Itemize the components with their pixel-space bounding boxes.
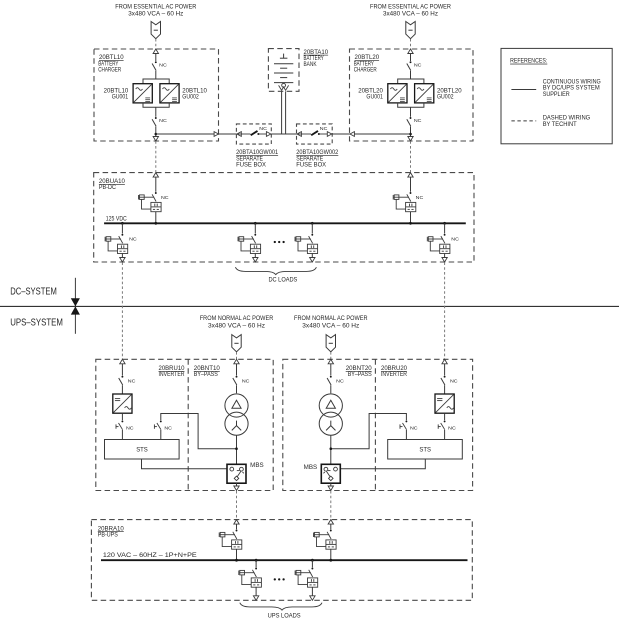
wire into breaker: [155, 177, 157, 192]
battery terminal connectors: [279, 83, 289, 90]
label 20BTL20 GU002: [437, 87, 462, 100]
label 20BNT10 BY-PASS: [194, 365, 220, 378]
svg-text:GU001: GU001: [112, 93, 129, 100]
breaker NC (PB-UPS outgoing): [295, 568, 318, 588]
switch NC (STS1 bypass input): [154, 420, 161, 429]
label 20BTL10 GU002: [182, 87, 207, 100]
flag-in arrow at UPS box top (inverter GU: 20BRU20): [442, 359, 447, 364]
switch NC (STS2 bypass input): [400, 420, 407, 429]
breaker NC (outgoing): [238, 234, 261, 254]
svg-text:120 VAC – 60HZ – 1P+N+PE: 120 VAC – 60HZ – 1P+N+PE: [103, 552, 197, 559]
flag-out arrow at PB-DC bottom: [310, 258, 315, 263]
wire: charger 1 to fuse box 1: [156, 133, 237, 135]
UPS unit 2 dashed enclosure (20BNT20/20BRU20): [283, 359, 473, 490]
wire from bypass tap to STS1 second input: [161, 414, 237, 449]
svg-text:FROM NORMAL AC POWER: FROM NORMAL AC POWER: [200, 316, 274, 322]
svg-text:MBS: MBS: [250, 463, 264, 469]
wire transformer to junction: [236, 435, 238, 464]
brace DC LOADS: [235, 267, 316, 274]
flag-out arrow at PB-DC bottom: [442, 258, 447, 263]
legend dashed wire sample: [511, 120, 536, 122]
node: FROM ESSENTIAL AC POWER source 2: [370, 5, 452, 18]
flag-out arrow at PB-DC bottom: [120, 258, 125, 263]
svg-text:3x480 VCA – 60 Hz: 3x480 VCA – 60 Hz: [128, 11, 183, 17]
svg-text:FUSE BOX: FUSE BOX: [236, 161, 266, 168]
junction dot on bus: [443, 222, 446, 225]
rectifier module GU001: [388, 84, 407, 103]
svg-text:NC: NC: [242, 378, 250, 384]
svg-text:NC: NC: [336, 378, 344, 384]
flag-in arrow at fuse box 2 left edge: [297, 132, 301, 137]
switch NC (inverter input GU: 20BRU20): [441, 376, 446, 385]
switch NC (bypass input 20BNT20): [327, 376, 332, 385]
wire bracket to NC2: [155, 107, 157, 117]
svg-text:FUSE BOX: FUSE BOX: [296, 161, 326, 168]
wire breaker to bus: [410, 212, 412, 224]
wire inverter to NC2: [444, 413, 446, 420]
wire breaker to arrow: [311, 587, 313, 600]
svg-text:NC: NC: [161, 195, 169, 201]
label 20BRA10 PB-UPS: [98, 525, 124, 538]
bus 125 VDC: [104, 222, 466, 224]
system break bowtie marker: [71, 278, 80, 334]
junction dot (bypass/STS tap): [235, 447, 238, 450]
svg-text:NC: NC: [320, 126, 328, 132]
wire breaker to arrow: [254, 254, 256, 263]
junction dot on bus: [311, 559, 314, 562]
svg-text:NC: NC: [126, 426, 134, 432]
parallel bracket bottom: [398, 103, 424, 107]
rectifier module GU002: [160, 84, 179, 103]
wire bus to breaker: [311, 560, 313, 567]
wire NC to STS1: [160, 430, 162, 440]
svg-text:BANK: BANK: [304, 61, 318, 68]
svg-text:CHARGER: CHARGER: [354, 66, 377, 73]
label 20BUA10 PB-DC: [99, 178, 125, 191]
svg-text:BY–PASS: BY–PASS: [348, 371, 372, 378]
svg-text:3x480 VCA – 60 Hz: 3x480 VCA – 60 Hz: [302, 323, 359, 329]
wire: fuse box 1 to fuse box 2: [271, 133, 296, 135]
label 20BTA10 BATTERY BANK: [304, 49, 329, 68]
svg-text:FROM ESSENTIAL AC POWER: FROM ESSENTIAL AC POWER: [370, 5, 452, 11]
switch NC (output): [407, 117, 412, 126]
wire: source drop (dashed): [330, 352, 332, 359]
wire into breaker: [410, 177, 412, 192]
svg-text:NC: NC: [128, 378, 136, 384]
label 20BRU10 INVERTER: [159, 365, 185, 378]
svg-text:NC: NC: [448, 426, 456, 432]
manual bypass switch MBS 1: [227, 464, 246, 483]
wire MBS2 to bottom arrow: [330, 483, 332, 490]
flag-out arrow at charger1 right edge: [214, 132, 218, 137]
wire: PB-DC to inverter 1 (dashed): [121, 262, 123, 359]
svg-text:NC: NC: [410, 426, 418, 432]
flag-in arrow at PB-UPS top: [234, 520, 239, 525]
svg-text:NC: NC: [129, 237, 137, 243]
junction dot: [409, 133, 412, 136]
flag-out arrow at charger 20BTL20 bottom: [408, 137, 413, 142]
svg-text:BY–PASS: BY–PASS: [194, 371, 218, 378]
wire breaker to bus: [155, 212, 157, 224]
svg-text:UPS–SYSTEM: UPS–SYSTEM: [10, 318, 63, 329]
svg-text:STS: STS: [136, 446, 148, 453]
wire NC2 to STS: [121, 430, 123, 440]
wire: source 1 drop (dashed): [155, 39, 157, 49]
flag-out arrow at fuse box 1 right edge: [266, 132, 270, 137]
breaker NC (incoming): [139, 192, 162, 212]
flag-out arrow at UPS box 2 bottom: [328, 486, 333, 491]
flag-in arrow at fuse box 1 left edge: [237, 132, 241, 137]
wire NC to bracket: [410, 71, 412, 79]
breaker NC (outgoing): [105, 234, 128, 254]
switch NC (inverter output GU: 20BRU10): [116, 420, 123, 429]
wire to NC: [330, 364, 332, 376]
svg-text:SUPPLIER: SUPPLIER: [543, 91, 570, 98]
switch NC (input): [407, 61, 412, 70]
label DASHED WIRING BY TECHINT: [543, 115, 591, 128]
svg-text:125 VDC: 125 VDC: [106, 216, 127, 223]
svg-text:REFERENCES:: REFERENCES:: [510, 58, 547, 65]
svg-text:STS: STS: [419, 446, 431, 453]
junction dot on bus: [121, 222, 124, 225]
junction dot on bus: [235, 559, 238, 562]
breaker NC (outgoing): [295, 234, 318, 254]
wire bus to breaker: [255, 560, 257, 567]
wire to NC: [236, 364, 238, 376]
wire NC to inverter: [444, 385, 446, 394]
svg-text:PB-DC: PB-DC: [99, 184, 116, 191]
flag-in arrow at PB-DC top: [408, 173, 413, 178]
source flag 2: [406, 22, 415, 39]
flag-in arrow at UPS box top (bypass 20BNT20): [328, 359, 333, 364]
svg-text:FROM NORMAL AC POWER: FROM NORMAL AC POWER: [294, 316, 368, 322]
wire breaker to arrow: [311, 254, 313, 263]
label 20BTA10GW002 SEPARATE FUSE BOX: [296, 149, 338, 168]
junction dot on bus: [329, 559, 332, 562]
battery bank 20BTA10 dashed enclosure: [268, 49, 299, 92]
svg-text:INVERTER: INVERTER: [381, 371, 407, 378]
wire breaker to arrow: [255, 587, 257, 600]
brace UPS LOADS: [240, 603, 322, 610]
wire transformer to junction: [330, 435, 332, 464]
manual bypass switch MBS 2: [321, 464, 340, 483]
svg-text:NC: NC: [164, 426, 172, 432]
static transfer switch STS 2: [388, 440, 463, 460]
flag-in arrow at charger 20BTL20 top: [408, 49, 413, 54]
wire breaker to bus: [330, 549, 332, 560]
svg-text:DC–SYSTEM: DC–SYSTEM: [10, 287, 57, 298]
references legend box: [501, 48, 612, 143]
junction dot on bus: [409, 222, 412, 225]
divider line DC-SYSTEM / UPS-SYSTEM: [0, 305, 619, 307]
wire: UPS1 to PB-UPS (dashed): [236, 491, 238, 520]
wire MBS1 to bottom arrow: [236, 483, 238, 490]
wire inverter to NC2: [121, 413, 123, 420]
wire bus to breaker: [254, 223, 256, 233]
node: FROM ESSENTIAL AC POWER source 1: [115, 5, 197, 18]
switch NC (output): [152, 117, 157, 126]
battery symbol: [274, 54, 293, 83]
panel 20BUA10 PB-DC dashed enclosure: [94, 173, 474, 262]
wire NC to transformer: [236, 385, 238, 393]
wire into breaker: [236, 524, 238, 529]
svg-text:NC: NC: [450, 378, 458, 384]
svg-text:UPS LOADS: UPS LOADS: [268, 613, 301, 620]
label CONTINUOUS WIRING BY DC/UPS SYSTEM SUPPLIER: [543, 78, 601, 98]
svg-text:GU001: GU001: [366, 93, 383, 100]
wire bus to breaker: [121, 223, 123, 233]
wire: fuse box 2 to charger 2: [332, 133, 410, 135]
junction dot: [155, 133, 158, 136]
wire STS1 output to MBS1: [142, 459, 228, 469]
wire bracket to NC2: [410, 107, 412, 117]
flag-out arrow at UPS box 1 bottom: [234, 486, 239, 491]
node: FROM NORMAL AC POWER source at x=236.5: [200, 316, 274, 329]
svg-text:3x480 VCA – 60 Hz: 3x480 VCA – 60 Hz: [208, 323, 265, 329]
breaker NC (incoming): [393, 192, 416, 212]
wire: charger2 to PB-DC (dashed): [410, 141, 412, 172]
junction dot (bypass/STS tap): [330, 447, 333, 450]
svg-text:CHARGER: CHARGER: [98, 66, 121, 73]
label 20BTL20 GU001: [358, 87, 383, 100]
svg-text:NC: NC: [414, 118, 422, 124]
label 20BTA10GW001 SEPARATE FUSE BOX: [236, 149, 278, 168]
wire NC to transformer: [330, 385, 332, 393]
wire STS2 output to MBS2: [341, 459, 426, 469]
transformer 20BNT20: [319, 394, 342, 435]
legend solid wire sample: [511, 89, 536, 91]
wire: charger1 to PB-DC (dashed): [155, 141, 157, 172]
svg-text:GU002: GU002: [437, 93, 454, 100]
wire from bypass tap to STS2 second input: [331, 414, 407, 449]
battery charger 20BTL10 dashed enclosure: [94, 49, 219, 141]
fuse switch 2: [298, 130, 331, 136]
UPS unit 1 dashed enclosure (20BRU10/20BNT10): [96, 359, 273, 490]
svg-text:NC: NC: [416, 195, 424, 201]
flag-out arrow at fuse box 2 right edge: [327, 132, 331, 137]
junction dot on bus: [311, 222, 314, 225]
label 20BTL10 BATTERY CHARGER: [98, 54, 124, 73]
junction dot on bus: [254, 222, 257, 225]
flag-out arrow at PB-UPS bottom: [253, 596, 258, 601]
switch NC (inverter input GU: 20BRU10): [119, 376, 124, 385]
flag-out arrow at PB-DC bottom: [253, 258, 258, 263]
transformer 20BNT10: [225, 394, 248, 435]
breaker NC (outgoing): [427, 234, 450, 254]
wire: UPS2 to PB-UPS (dashed): [330, 491, 332, 520]
ellipsis between UPS load feeders: [274, 578, 285, 580]
svg-text:NC: NC: [159, 62, 167, 68]
wire bus to breaker: [311, 223, 313, 233]
label 20BRU20 INVERTER: [381, 365, 407, 378]
switch NC (input): [152, 61, 157, 70]
flag-out arrow at PB-UPS bottom: [310, 596, 315, 601]
breaker NC (PB-UPS incoming): [219, 530, 242, 550]
flag-in arrow at charger 20BTL10 top: [153, 49, 158, 54]
switch NC (inverter output GU: 20BRU20): [438, 420, 445, 429]
inverter module GU: 20BRU20: [435, 394, 454, 413]
breaker NC (PB-UPS outgoing): [239, 568, 262, 588]
internal divider inverter/bypass 1: [187, 359, 189, 490]
wire: source 2 drop (dashed): [410, 39, 412, 49]
separate fuse box 20BTA10GW002 dashed enclosure: [297, 124, 333, 144]
wire NC2 to junction: [410, 127, 412, 142]
inverter module GU: 20BRU10: [113, 394, 132, 413]
node: FROM NORMAL AC POWER source at x=330.8: [294, 316, 368, 329]
source flag: [232, 335, 241, 352]
svg-text:3x480 VCA – 60 Hz: 3x480 VCA – 60 Hz: [383, 11, 438, 17]
label 20BNT20 BY-PASS: [346, 365, 372, 378]
wire NC to bracket: [155, 71, 157, 79]
rectifier module GU001: [133, 84, 152, 103]
svg-text:NC: NC: [414, 62, 422, 68]
ellipsis between DC load feeders: [274, 241, 285, 243]
wire to NC: [121, 364, 123, 376]
source flag 1: [151, 22, 160, 39]
svg-text:NC: NC: [159, 118, 167, 124]
svg-text:FROM ESSENTIAL AC POWER: FROM ESSENTIAL AC POWER: [115, 5, 197, 11]
wire breaker to arrow: [121, 254, 123, 263]
switch NC (bypass input 20BNT10): [233, 376, 238, 385]
wire NC to STS2: [405, 430, 407, 440]
svg-text:BY TECHINT: BY TECHINT: [543, 121, 577, 128]
label 20BTL20 BATTERY CHARGER: [354, 54, 380, 73]
internal divider bypass/inverter 2: [374, 359, 376, 490]
flag-in arrow at charger2 left edge: [350, 132, 354, 137]
junction dot on bus: [154, 222, 157, 225]
wire: battery leads: [281, 91, 283, 134]
parallel bracket bottom: [143, 103, 169, 107]
static transfer switch STS 1: [105, 440, 180, 460]
battery charger 20BTL20 dashed enclosure: [350, 49, 474, 141]
svg-text:NC: NC: [451, 237, 459, 243]
svg-text:PB-UPS: PB-UPS: [98, 531, 118, 538]
wire breaker to bus: [236, 549, 238, 560]
wire bus to breaker: [444, 223, 446, 233]
flag-in arrow at PB-UPS top: [328, 520, 333, 525]
wire to NC: [444, 364, 446, 376]
svg-text:INVERTER: INVERTER: [159, 371, 185, 378]
wire NC to inverter: [121, 385, 123, 394]
svg-text:DC LOADS: DC LOADS: [268, 277, 297, 284]
rectifier module GU002: [415, 84, 434, 103]
flag-out arrow at charger 20BTL10 bottom: [153, 137, 158, 142]
parallel bracket top: [398, 79, 424, 84]
wire: PB-DC to inverter 2 (dashed): [444, 262, 446, 359]
bus 120 VAC: [101, 559, 468, 561]
wire breaker to arrow: [444, 254, 446, 263]
wire NC2 to junction: [155, 127, 157, 142]
wire into NC: [155, 54, 157, 62]
wire into breaker: [330, 524, 332, 529]
svg-text:GU002: GU002: [182, 93, 199, 100]
wire into NC: [410, 54, 412, 62]
separate fuse box 20BTA10GW001 dashed enclosure: [236, 124, 271, 144]
breaker NC (PB-UPS incoming): [314, 530, 337, 550]
label 20BTL10 GU001: [104, 87, 129, 100]
panel 20BRA10 PB-UPS dashed enclosure: [91, 520, 472, 601]
wire: source drop (dashed): [236, 352, 238, 359]
fuse switch 1: [237, 130, 270, 136]
flag-in arrow at UPS box top (bypass 20BNT10): [234, 359, 239, 364]
wire NC2 to STS: [444, 430, 446, 440]
parallel bracket top: [143, 79, 169, 84]
flag-in arrow at UPS box top (inverter GU: 20BRU10): [120, 359, 125, 364]
source flag: [326, 335, 335, 352]
flag-in arrow at PB-DC top: [153, 173, 158, 178]
svg-text:MBS: MBS: [304, 465, 318, 471]
junction dot on bus: [255, 559, 258, 562]
